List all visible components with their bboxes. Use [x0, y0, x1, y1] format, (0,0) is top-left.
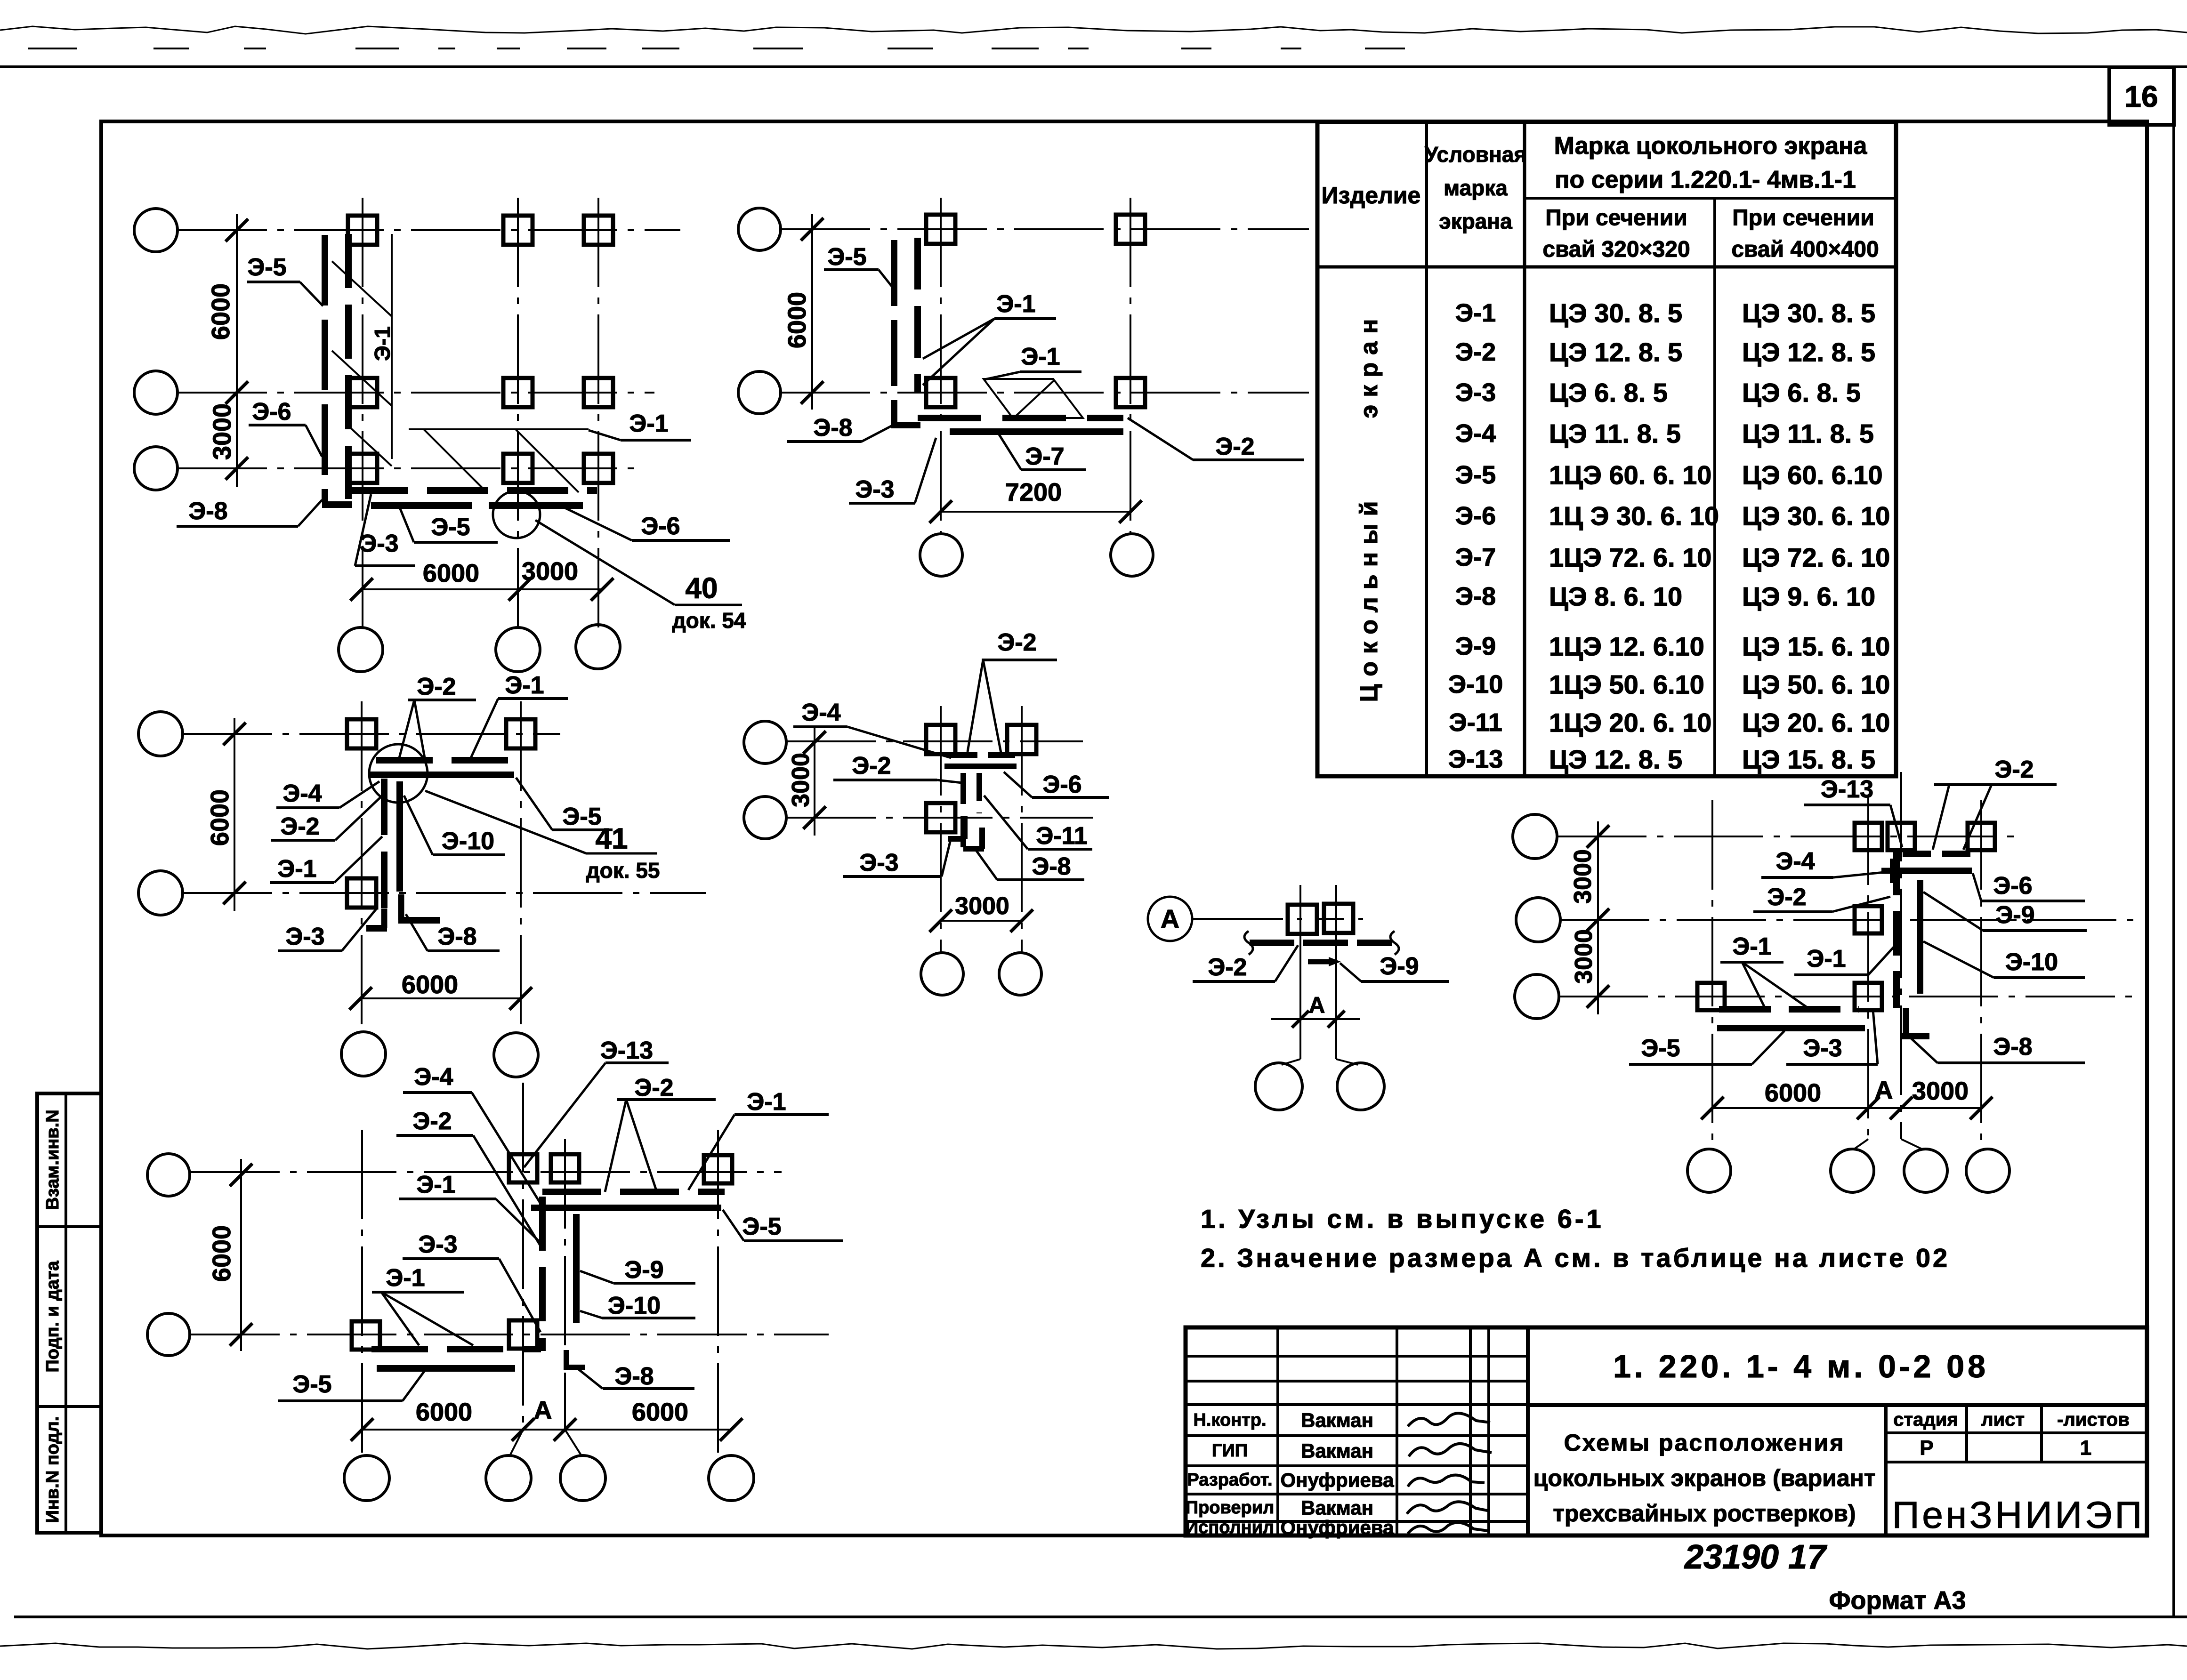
plan 1 axis row line A: [178, 229, 680, 231]
plan 5 screen Э-5 horizontal upper: [531, 1205, 721, 1211]
svg-text:Э-2: Э-2: [1215, 433, 1254, 460]
svg-text:1ЦЭ 12. 6.10: 1ЦЭ 12. 6.10: [1549, 632, 1704, 661]
svg-text:Э-4: Э-4: [282, 780, 322, 807]
plan 7 axis stem col2: [1854, 1139, 1868, 1149]
svg-text:Э-9: Э-9: [624, 1256, 663, 1284]
plan 4 axis column line 2: [1021, 706, 1023, 952]
left stamp divider 1: [37, 1225, 101, 1228]
svg-text:Э-10: Э-10: [2005, 949, 2058, 976]
svg-text:Э-2: Э-2: [1455, 338, 1496, 366]
svg-text:цокольных экранов (вариант: цокольных экранов (вариант: [1533, 1465, 1876, 1491]
plan 7 axis circle col 1: [1687, 1149, 1731, 1192]
svg-text:2. Значение размера А см. в: 2. Значение размера А см. в таблице на л…: [1201, 1243, 1950, 1273]
svg-text:ЦЭ 30. 6. 10: ЦЭ 30. 6. 10: [1742, 501, 1890, 531]
svg-text:6000: 6000: [206, 789, 234, 846]
plan 1 axis column line 2: [517, 198, 519, 627]
svg-text:Э-10: Э-10: [442, 828, 494, 855]
signature squiggle 2: [1409, 1444, 1492, 1456]
plan 1 screen Э-5 vertical dashed: [322, 235, 328, 502]
svg-text:ЦЭ 20. 6. 10: ЦЭ 20. 6. 10: [1742, 708, 1890, 738]
svg-text:1Ц Э 30. 6. 10: 1Ц Э 30. 6. 10: [1549, 501, 1719, 531]
svg-text:Э-8: Э-8: [437, 923, 476, 950]
torn edge fragments top: [28, 48, 1405, 49]
plan 1 bottom dimension line: [362, 588, 602, 590]
plan 1 hatch stroke: [348, 426, 392, 466]
detail A pile cap 1: [1288, 905, 1317, 934]
plan 4 axis circle row B: [744, 796, 786, 839]
plan 4 screen Э-4 horizontal dashed: [950, 752, 1019, 758]
detail A screen strip: [1250, 940, 1392, 946]
title block vertical line col3b: [1487, 1327, 1490, 1535]
plan 4 screen Э-11 vertical dashed: [976, 773, 982, 813]
plan 5 bottom dimension line: [362, 1429, 731, 1431]
svg-text:ЦЭ 60. 6.10: ЦЭ 60. 6.10: [1742, 460, 1883, 490]
svg-text:Э-6: Э-6: [252, 398, 291, 426]
svg-text:по серии 1.220.1- 4мв.1-1: по серии 1.220.1- 4мв.1-1: [1555, 166, 1856, 193]
plan 2 screen Э-1 vertical dashed: [914, 238, 921, 393]
plan 1 pile cap: [348, 454, 377, 483]
svg-text:Формат А3: Формат А3: [1829, 1586, 1966, 1615]
plan 1 pile cap: [503, 378, 533, 407]
title block right section divider: [1884, 1405, 1888, 1535]
sheet number box: [2109, 67, 2174, 125]
svg-text:Э-1: Э-1: [629, 410, 668, 437]
svg-text:Э-13: Э-13: [1448, 745, 1503, 773]
svg-text:Э-3: Э-3: [855, 476, 894, 503]
plan 5 pile cap: [551, 1154, 579, 1182]
plan 7 screen Э-1 horizontal dashed: [1719, 1006, 1859, 1013]
plan 7 pile cap: [1888, 823, 1915, 850]
plan 1 pile cap: [503, 454, 533, 483]
svg-text:Э-1: Э-1: [505, 672, 544, 699]
table header line 2: [1317, 265, 1896, 269]
svg-text:свай 320×320: свай 320×320: [1542, 237, 1690, 262]
svg-text:Вакман: Вакман: [1301, 1409, 1373, 1431]
svg-text:ЦЭ 11. 8. 5: ЦЭ 11. 8. 5: [1549, 419, 1681, 449]
svg-text:Р: Р: [1920, 1437, 1933, 1460]
plan 7 cross mark: [1881, 868, 1905, 874]
svg-text:Э-1: Э-1: [996, 290, 1035, 318]
plan 2 pile cap: [1116, 215, 1145, 244]
svg-text:Э-7: Э-7: [1025, 443, 1064, 470]
svg-text:Э-10: Э-10: [1448, 670, 1503, 699]
svg-text:Разработ.: Разработ.: [1187, 1470, 1272, 1490]
plan 5 axis column line 3: [564, 1139, 566, 1430]
plan 5 axis stem col3: [565, 1430, 582, 1456]
plan 1 pile cap: [348, 216, 377, 245]
plan 5 axis circle col 1: [344, 1455, 389, 1501]
signature squiggle 5: [1408, 1522, 1488, 1534]
plan 5 axis stem col2: [509, 1430, 523, 1456]
svg-text:ЦЭ 30. 8. 5: ЦЭ 30. 8. 5: [1742, 298, 1875, 328]
plan 5 screen Э-1 vertical dashed: [539, 1197, 546, 1351]
plan 7 screen Э-13 horizontal dashed: [1903, 851, 1972, 857]
plan 4 screen Э-2 vertical dashed: [960, 773, 966, 847]
plan 1 axis row line B: [178, 392, 654, 394]
plan 5 screen Э-2 horizontal dashed: [542, 1189, 725, 1195]
title block name row line 1: [1186, 1434, 1528, 1437]
svg-text:Э-2: Э-2: [1208, 954, 1247, 981]
svg-text:Э-3: Э-3: [285, 923, 324, 950]
plan 2 axis column line 2: [1130, 198, 1131, 534]
plan 4 vertical dimension line: [814, 727, 815, 836]
plan 1 axis column line 3: [597, 198, 599, 627]
left stamp column frame: [37, 1093, 101, 1533]
plan 4 screen Э-8 corner: [979, 828, 985, 849]
svg-text:7200: 7200: [1005, 478, 1062, 506]
plan 3 screen Э-8 corner: [398, 894, 404, 920]
plan 3 axis circle row A: [138, 712, 183, 756]
detail A stem left: [1299, 1019, 1301, 1059]
svg-text:40: 40: [686, 572, 718, 605]
signature squiggle 4: [1407, 1502, 1490, 1514]
plan 7 axis row line C: [1558, 996, 2138, 997]
plan 2 screen Э-8 corner foot: [891, 422, 920, 428]
svg-text:Э-5: Э-5: [431, 514, 470, 541]
plan 4 screen Э-6 horizontal: [944, 764, 1017, 769]
svg-text:3000: 3000: [955, 892, 1009, 920]
svg-text:Взам.инв.N: Взам.инв.N: [43, 1109, 63, 1210]
svg-text:стадия: стадия: [1893, 1409, 1958, 1430]
svg-text:А: А: [1309, 993, 1325, 1018]
stage column dividers: [1965, 1405, 1968, 1462]
plan 3 screen Э-1 vertical dashed: [381, 779, 387, 912]
detail A axis column line 2: [1335, 885, 1337, 1019]
plan 5 pile cap: [352, 1321, 380, 1350]
plan 7 pile cap: [1697, 983, 1725, 1010]
plan 2 pile cap: [1116, 378, 1145, 407]
svg-text:Э-1: Э-1: [277, 855, 316, 883]
svg-text:ЦЭ 30. 8. 5: ЦЭ 30. 8. 5: [1549, 298, 1682, 328]
plan 1 leader to detail 40: [535, 520, 675, 605]
plan 7 vertical dimension line: [1597, 821, 1599, 1014]
plan 7 axis circle col 2: [1831, 1149, 1874, 1192]
plan 1 detail circle 40: [493, 491, 540, 538]
plan 1 pile cap: [348, 378, 377, 407]
plan 7 axis column line 3: [1900, 772, 1902, 1139]
plan 7 axis column line 2: [1867, 796, 1869, 1139]
plan 5 vertical dimension line: [240, 1159, 242, 1351]
title block small row line 1: [1186, 1355, 1528, 1358]
plan 5 pile cap: [509, 1154, 537, 1182]
svg-text:Э-6: Э-6: [1042, 771, 1081, 798]
svg-text:экрана: экрана: [1439, 209, 1512, 233]
plan 4 bottom dimension line: [941, 920, 1022, 922]
svg-text:41: 41: [596, 823, 628, 855]
svg-text:Э-4: Э-4: [1455, 419, 1496, 448]
svg-text:6000: 6000: [416, 1398, 472, 1426]
plan 4 pile cap: [926, 803, 955, 832]
svg-text:6000: 6000: [423, 559, 479, 587]
svg-text:ЦЭ 12. 8. 5: ЦЭ 12. 8. 5: [1742, 338, 1875, 367]
svg-text:Э-3: Э-3: [359, 530, 398, 557]
plan 1 hatch stroke: [424, 429, 487, 492]
plan 1 pile cap: [584, 216, 613, 245]
plan 7 axis circle row B: [1516, 898, 1560, 942]
plan 3 bottom dimension line: [361, 997, 521, 999]
plan 3 axis circle col 2: [494, 1033, 538, 1077]
svg-text:Онуфриева: Онуфриева: [1280, 1469, 1394, 1491]
plan 1 axis circle col 2: [496, 627, 540, 672]
svg-text:Э-5: Э-5: [247, 254, 286, 281]
page top border line: [0, 65, 2187, 68]
svg-text:Цокольный: Цокольный: [1356, 494, 1383, 702]
detail A axis circle: [1148, 897, 1192, 941]
svg-text:Э-2: Э-2: [412, 1108, 452, 1135]
plan 4 axis circle col 2: [999, 953, 1041, 995]
svg-text:1ЦЭ 50. 6.10: 1ЦЭ 50. 6.10: [1549, 670, 1704, 699]
plan 7 screen Э-5 horizontal: [1717, 1025, 1865, 1031]
svg-text:3000: 3000: [1570, 929, 1598, 984]
svg-text:Э-3: Э-3: [418, 1231, 457, 1258]
svg-text:Э-8: Э-8: [1032, 853, 1071, 880]
plan 7 pile cap: [1855, 906, 1882, 933]
svg-text:Вакман: Вакман: [1301, 1440, 1373, 1462]
detail A axis circle bottom 2: [1337, 1063, 1384, 1110]
plan 3 axis row line B: [183, 892, 706, 894]
svg-text:Вакман: Вакман: [1301, 1497, 1373, 1519]
plan 7 screen Э-2 vertical dashed: [1893, 851, 1900, 1008]
plan 5 axis circle row B: [147, 1313, 190, 1356]
detail A pile cap 2: [1324, 904, 1353, 933]
svg-text:Марка цокольного экрана: Марка цокольного экрана: [1554, 132, 1868, 160]
svg-text:Э-4: Э-4: [414, 1063, 453, 1091]
svg-text:Э-5: Э-5: [827, 243, 866, 271]
svg-text:Э-5: Э-5: [1455, 461, 1496, 489]
page bottom border line: [14, 1616, 2187, 1618]
svg-text:-листов: -листов: [2057, 1409, 2130, 1430]
plan 3 axis row line A: [183, 733, 560, 735]
plan 1 screen Э-5 horizontal dashed: [347, 487, 597, 494]
svg-text:6000: 6000: [632, 1398, 688, 1426]
plan 5 axis row line B: [190, 1334, 829, 1335]
plan 2 axis row line B: [781, 392, 1309, 394]
svg-text:Э-5: Э-5: [1641, 1035, 1680, 1062]
svg-text:3000: 3000: [787, 753, 815, 807]
title block vertical line col1: [1276, 1327, 1279, 1535]
plan 5 axis column line 2: [522, 1083, 524, 1430]
plan 3 detail circle 41: [369, 744, 428, 803]
plan 1 hatch stroke: [332, 261, 392, 316]
plan 5 screen Э-10 vertical: [573, 1214, 580, 1323]
svg-text:Э-13: Э-13: [1821, 776, 1873, 803]
svg-text:3000: 3000: [522, 557, 578, 586]
plan 7 screen Э-8 corner: [1903, 1008, 1909, 1036]
torn paper edge bottom: [0, 1643, 2187, 1649]
svg-text:ЦЭ 11. 8. 5: ЦЭ 11. 8. 5: [1742, 419, 1874, 449]
plan 7 axis stem col3: [1901, 1139, 1922, 1149]
svg-text:Условная: Условная: [1425, 142, 1527, 167]
plan 4 axis row line B: [786, 817, 1093, 819]
svg-text:Изделие: Изделие: [1322, 182, 1421, 209]
plan 7 pile cap: [1855, 823, 1882, 850]
svg-text:Э-1: Э-1: [1021, 343, 1060, 370]
svg-text:Э-8: Э-8: [813, 414, 852, 442]
svg-text:Э-2: Э-2: [634, 1074, 673, 1101]
plan 4 pile cap: [1007, 725, 1036, 754]
plan 2 screen Э-7 horizontal: [950, 428, 1123, 435]
plan 3 screen Э-5 horizontal: [370, 772, 514, 778]
svg-text:экран: экран: [1356, 312, 1383, 418]
title block line under designation: [1528, 1403, 2147, 1407]
svg-text:Онуфриева: Онуфриева: [1280, 1517, 1394, 1539]
svg-text:Э-8: Э-8: [614, 1363, 654, 1390]
plan 4 axis column line 1: [940, 706, 942, 952]
plan 4 axis row line A: [786, 740, 1083, 742]
svg-text:Э-2: Э-2: [852, 752, 891, 780]
svg-text:А: А: [1161, 904, 1179, 934]
plan 1 axis circle col 3: [576, 625, 620, 669]
svg-text:Э-11: Э-11: [1449, 708, 1502, 737]
svg-text:Э-2: Э-2: [1767, 884, 1806, 911]
svg-text:6000: 6000: [1765, 1079, 1821, 1107]
plan 5 axis circle col 2: [486, 1455, 531, 1501]
svg-text:Э-4: Э-4: [1775, 848, 1815, 875]
plan 3 pile cap: [347, 878, 376, 908]
svg-text:Э-8: Э-8: [1993, 1033, 2032, 1061]
svg-text:Э-2: Э-2: [997, 629, 1036, 656]
svg-text:ЦЭ 6. 8. 5: ЦЭ 6. 8. 5: [1742, 378, 1861, 408]
svg-text:А: А: [1875, 1076, 1893, 1104]
svg-text:док. 54: док. 54: [672, 608, 746, 633]
plan 1 pile cap: [503, 216, 533, 245]
svg-text:А: А: [534, 1396, 552, 1424]
svg-text:1ЦЭ 60. 6. 10: 1ЦЭ 60. 6. 10: [1549, 460, 1711, 490]
svg-text:3000: 3000: [1569, 849, 1597, 904]
plan 4 screen Э-3 corner: [962, 816, 968, 839]
svg-text:При сечении: При сечении: [1732, 206, 1874, 231]
plan 2 axis circle col 2: [1111, 534, 1153, 576]
title block name row line 2: [1186, 1464, 1528, 1467]
plan 2 screen Э-2 horizontal dashed: [918, 415, 1123, 421]
left stamp divider 2: [37, 1405, 101, 1408]
svg-text:Э-5: Э-5: [292, 1371, 331, 1398]
svg-text:Э-3: Э-3: [1803, 1035, 1842, 1062]
title block name row line 3: [1186, 1493, 1528, 1495]
title block name row line 0: [1186, 1403, 1528, 1406]
svg-text:ЦЭ 6. 8. 5: ЦЭ 6. 8. 5: [1549, 378, 1668, 408]
plan 3 pile cap: [506, 719, 535, 748]
plan 2 axis circle row A: [738, 208, 781, 250]
svg-text:ЦЭ 72. 6. 10: ЦЭ 72. 6. 10: [1742, 543, 1890, 572]
svg-text:Э-13: Э-13: [600, 1037, 653, 1064]
svg-text:ЦЭ 50. 6. 10: ЦЭ 50. 6. 10: [1742, 670, 1890, 699]
svg-text:3000: 3000: [208, 403, 236, 460]
plan 7 axis row line A: [1557, 836, 2020, 837]
svg-text:ЦЭ 15. 8. 5: ЦЭ 15. 8. 5: [1742, 745, 1875, 774]
title block name row line 4: [1186, 1520, 1528, 1523]
plan 3 screen Э-3 corner: [381, 908, 387, 928]
plan 7 axis circle row C: [1515, 974, 1559, 1019]
plan 1 hatch zone vertical boundary: [391, 234, 393, 459]
plan 3 axis circle row B: [138, 871, 183, 915]
title block frame: [1186, 1327, 2147, 1535]
svg-text:ЦЭ 15. 6. 10: ЦЭ 15. 6. 10: [1742, 632, 1890, 661]
signature squiggle 1: [1408, 1413, 1490, 1426]
plan 3 screen Э-2 horizontal dashed: [376, 757, 518, 764]
torn paper edge top: [0, 26, 2187, 34]
plan 1 axis circle row C: [134, 447, 178, 490]
plan 1 screen Э-8 corner foot: [322, 501, 352, 508]
table column line 1: [1425, 122, 1428, 776]
plan 7 axis column line 4: [1980, 800, 1982, 1148]
plan 7 bottom dimension line: [1712, 1107, 1981, 1109]
plan 1 axis circle row A: [134, 209, 178, 252]
svg-text:Э-8: Э-8: [188, 498, 227, 525]
svg-text:Э-2: Э-2: [1994, 756, 2034, 783]
plan 7 axis circle col 4: [1966, 1149, 2009, 1192]
plan 1 screen Э-1 vertical dashed: [345, 234, 352, 499]
svg-text:ЦЭ 12. 8. 5: ЦЭ 12. 8. 5: [1549, 745, 1682, 774]
table header line 1: [1525, 197, 1896, 200]
plan 5 pile cap: [509, 1320, 537, 1349]
plan 5 axis column line 1: [361, 1130, 363, 1456]
plan 7 axis column line 1: [1711, 800, 1713, 1148]
svg-text:Э-1: Э-1: [1455, 299, 1496, 327]
plan 5 screen Э-5 horizontal lower: [377, 1365, 515, 1372]
svg-text:Э-3: Э-3: [859, 849, 898, 876]
svg-text:ЦЭ 9. 6. 10: ЦЭ 9. 6. 10: [1742, 582, 1875, 611]
svg-text:Э-7: Э-7: [1455, 543, 1496, 571]
plan 1 axis row line C: [178, 467, 643, 469]
svg-text:Инв.N подл.: Инв.N подл.: [43, 1416, 63, 1523]
plan 2 axis circle col 1: [920, 534, 962, 576]
svg-text:Э-4: Э-4: [801, 699, 840, 726]
table column line 2: [1523, 122, 1526, 776]
svg-text:Э-1: Э-1: [370, 326, 395, 361]
plan 1 axis circle col 1: [339, 627, 383, 672]
detail A leader line: [1192, 918, 1255, 920]
svg-text:свай 400×400: свай 400×400: [1731, 237, 1879, 262]
svg-text:Подп. и дата: Подп. и дата: [43, 1261, 63, 1373]
detail A axis column line 1: [1299, 885, 1301, 1019]
plan 3 axis column line 1: [361, 701, 363, 1032]
plan 2 axis circle row B: [738, 371, 781, 414]
svg-text:1ЦЭ 72. 6. 10: 1ЦЭ 72. 6. 10: [1549, 543, 1711, 572]
svg-text:ЦЭ 8. 6. 10: ЦЭ 8. 6. 10: [1549, 582, 1682, 611]
detail A screen Э-9 strip: [1308, 959, 1333, 965]
svg-text:марка: марка: [1444, 176, 1508, 200]
plan 2 hatch parallelogram: [984, 379, 1083, 418]
plan 5 axis row line A: [190, 1171, 782, 1173]
plan 7 axis circle row A: [1513, 814, 1557, 859]
plan 3 vertical dimension line: [234, 718, 235, 911]
svg-text:Э-3: Э-3: [1455, 378, 1496, 407]
svg-text:6000: 6000: [207, 283, 235, 340]
plan 3 leader to detail 41: [425, 791, 586, 853]
svg-text:При сечении: При сечении: [1545, 206, 1687, 231]
left stamp divider vertical: [65, 1093, 67, 1533]
plan 7 axis row line B: [1560, 919, 2138, 921]
plan 1 axis column line 1: [362, 198, 363, 627]
svg-text:Э-1: Э-1: [1732, 933, 1771, 960]
svg-text:Э-1: Э-1: [386, 1264, 425, 1292]
plan 1 vertical dimension line: [236, 214, 238, 487]
plan 3 axis circle col 1: [341, 1032, 386, 1076]
svg-text:Э-9: Э-9: [1455, 632, 1496, 660]
plan 1 axis circle row B: [134, 371, 178, 414]
svg-text:ПенЗНИИЭП: ПенЗНИИЭП: [1892, 1494, 2145, 1536]
svg-text:16: 16: [2124, 80, 2158, 113]
svg-text:Э-2: Э-2: [417, 673, 456, 700]
plan 7 pile cap: [1855, 983, 1882, 1010]
svg-text:Э-5: Э-5: [742, 1213, 781, 1240]
signature squiggle 3: [1408, 1475, 1485, 1487]
svg-text:1ЦЭ 20. 6. 10: 1ЦЭ 20. 6. 10: [1549, 708, 1711, 738]
plan 5 axis circle col 3: [560, 1455, 605, 1501]
svg-text:Э-9: Э-9: [1995, 901, 2034, 929]
stage header line: [1886, 1431, 2147, 1434]
